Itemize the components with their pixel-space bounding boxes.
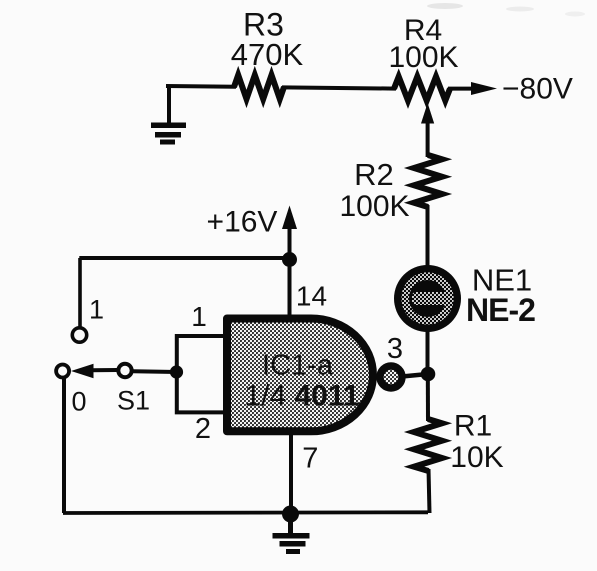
wiper arrow of R4: [426, 116, 430, 157]
resistor R1: [414, 419, 442, 471]
svg-text:1: 1: [191, 301, 207, 332]
svg-text:−80V: −80V: [502, 73, 573, 106]
switch arm arrow: [91, 368, 117, 372]
wire R1 to bottom rail: [429, 469, 430, 513]
svg-text:2: 2: [195, 413, 211, 445]
wire left vertical to position-1 contact: [78, 258, 82, 329]
svg-text:S1: S1: [117, 386, 150, 416]
svg-text:+16V: +16V: [207, 206, 278, 239]
svg-text:3: 3: [387, 333, 403, 365]
svg-text:IC1-a: IC1-a: [262, 350, 334, 382]
svg-text:0: 0: [71, 387, 86, 417]
wire S1 to input junction: [133, 369, 177, 374]
bottom rail wire: [63, 510, 428, 515]
svg-text:NE-2: NE-2: [466, 292, 535, 328]
wire from R4 to arrow: [448, 87, 477, 91]
wire top horizontal from ground to R3: [166, 84, 236, 89]
wire NE1 to node: [426, 331, 430, 376]
wire pin14 from junction to gate: [288, 260, 292, 318]
node: +16V junction: [282, 252, 297, 267]
svg-text:R1: R1: [454, 410, 492, 443]
svg-text:470K: 470K: [231, 37, 304, 72]
svg-text:14: 14: [296, 281, 327, 312]
wire node to R1: [426, 373, 430, 421]
svg-text:100K: 100K: [339, 190, 409, 223]
scan smudge top right: [427, 3, 463, 9]
svg-text:100K: 100K: [388, 41, 458, 74]
neon lamp NE1: [394, 265, 461, 332]
switch S1 pole circle: [118, 364, 131, 377]
node: junction output/NE1/R1: [421, 367, 436, 382]
ground (top-left): [167, 86, 171, 124]
wire to pin 1: [177, 336, 225, 372]
+16V arrow: [288, 218, 292, 260]
node: input junction: [170, 365, 183, 378]
output bubble pin 3: [380, 366, 402, 388]
NAND gate IC1-a body: [227, 319, 373, 432]
potentiometer R4: [394, 77, 450, 101]
resistor R3: [234, 75, 284, 99]
wire bubble to node: [402, 374, 428, 377]
+16V supply wire horizontal: [79, 256, 289, 260]
arrowhead to -80V: [471, 82, 497, 95]
switch contact 0 (open circle): [56, 365, 69, 378]
switch contact 1 (open circle): [72, 328, 86, 342]
wire 0-contact down to bottom rail: [62, 378, 66, 513]
svg-text:10K: 10K: [450, 441, 503, 474]
wire from R3 to R4: [282, 87, 396, 88]
svg-text:R2: R2: [354, 157, 394, 192]
wire pin7 from gate to ground: [289, 433, 293, 514]
ground (bottom): [288, 514, 293, 534]
resistor R2: [414, 155, 442, 207]
wire R2 to NE1: [426, 205, 430, 266]
svg-text:7: 7: [302, 443, 318, 475]
svg-text:1/4 4011: 1/4 4011: [244, 380, 359, 413]
svg-text:1: 1: [89, 295, 104, 325]
bottom ground junction node: [282, 506, 299, 523]
wire to pin 2: [177, 372, 225, 412]
